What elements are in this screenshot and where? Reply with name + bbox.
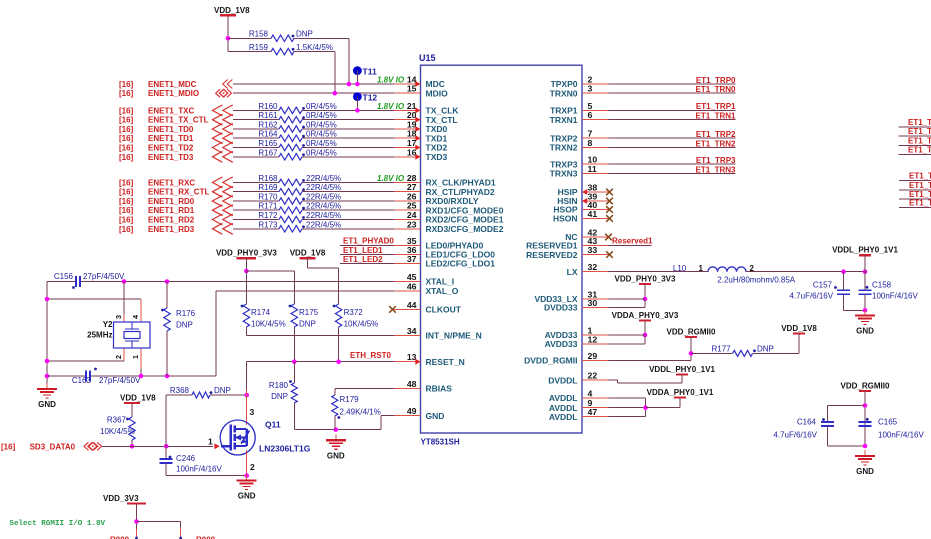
svg-text:R169: R169 [258, 183, 278, 192]
svg-text:0R/4/5%: 0R/4/5% [306, 148, 337, 157]
svg-text:0R/4/5%: 0R/4/5% [306, 130, 337, 139]
svg-text:22R/4/5%: 22R/4/5% [306, 193, 341, 202]
svg-text:ENET1_TX_CTL: ENET1_TX_CTL [148, 116, 209, 125]
svg-text:DNP: DNP [214, 386, 231, 395]
svg-text:100nF/4/16V: 100nF/4/16V [176, 465, 222, 474]
svg-text:1: 1 [208, 436, 213, 446]
svg-text:YT8531SH: YT8531SH [421, 438, 460, 447]
svg-text:DVDDL: DVDDL [548, 375, 577, 385]
svg-text:CLKOUT: CLKOUT [426, 305, 462, 315]
svg-text:VDD_3V3: VDD_3V3 [103, 494, 139, 503]
svg-text:C246: C246 [176, 454, 196, 463]
svg-text:[16]: [16] [119, 197, 134, 206]
svg-text:25MHz: 25MHz [87, 331, 112, 340]
svg-text:32: 32 [588, 262, 598, 272]
svg-text:ET1_T: ET1_T [908, 137, 931, 146]
svg-text:0R/4/5%: 0R/4/5% [306, 121, 337, 130]
svg-text:8: 8 [588, 138, 593, 148]
svg-text:ENET1_RD2: ENET1_RD2 [148, 216, 195, 225]
svg-text:ET1_TRP2: ET1_TRP2 [696, 130, 736, 139]
svg-text:TRXN3: TRXN3 [550, 169, 578, 179]
svg-text:0R/4/5%: 0R/4/5% [306, 102, 337, 111]
svg-text:GND: GND [327, 451, 345, 460]
svg-text:ENET1_RD1: ENET1_RD1 [148, 206, 195, 215]
svg-text:4: 4 [588, 389, 593, 399]
svg-text:4.7uF/6/16V: 4.7uF/6/16V [773, 431, 817, 440]
svg-text:ENET1_TD0: ENET1_TD0 [148, 125, 194, 134]
svg-text:R372: R372 [344, 308, 364, 317]
svg-text:R174: R174 [251, 308, 271, 317]
svg-text:47: 47 [588, 407, 598, 417]
svg-text:RXD3/CFG_MODE2: RXD3/CFG_MODE2 [426, 224, 504, 234]
svg-text:1.5K/4/5%: 1.5K/4/5% [296, 43, 333, 52]
svg-text:DNP: DNP [296, 30, 313, 39]
svg-text:R177: R177 [711, 344, 731, 353]
svg-text:LX: LX [567, 267, 578, 277]
svg-text:R000: R000 [110, 536, 130, 539]
svg-text:1.8V IO: 1.8V IO [377, 174, 405, 183]
svg-text:C158: C158 [872, 281, 892, 290]
svg-text:R000: R000 [196, 536, 216, 539]
svg-text:VDD_PHY0_3V3: VDD_PHY0_3V3 [615, 275, 676, 284]
svg-text:ENET1_TXC: ENET1_TXC [148, 106, 194, 115]
svg-text:ENET1_MDC: ENET1_MDC [148, 80, 197, 89]
svg-text:R158: R158 [249, 30, 269, 39]
svg-text:2: 2 [250, 462, 255, 472]
svg-text:27pF/4/50V: 27pF/4/50V [83, 272, 125, 281]
svg-text:[16]: [16] [119, 225, 134, 234]
svg-text:[16]: [16] [119, 178, 134, 187]
svg-text:46: 46 [407, 281, 417, 291]
svg-text:RESET_N: RESET_N [426, 357, 465, 367]
svg-text:22R/4/5%: 22R/4/5% [306, 211, 341, 220]
svg-text:ETH_RST0: ETH_RST0 [350, 351, 391, 360]
svg-text:49: 49 [407, 406, 417, 416]
svg-text:15: 15 [407, 84, 417, 94]
svg-text:R175: R175 [299, 308, 319, 317]
svg-text:ENET1_TD3: ENET1_TD3 [148, 153, 194, 162]
svg-text:Select RGMII I/O 1.8V: Select RGMII I/O 1.8V [9, 520, 105, 528]
svg-text:R179: R179 [340, 395, 360, 404]
svg-text:ET1_T: ET1_T [909, 181, 931, 190]
svg-text:29: 29 [588, 351, 598, 361]
svg-text:3: 3 [588, 84, 593, 94]
svg-text:VDDA_PHY0_1V1: VDDA_PHY0_1V1 [647, 388, 714, 397]
svg-text:U15: U15 [419, 53, 436, 63]
svg-text:ENET1_RD0: ENET1_RD0 [148, 197, 195, 206]
svg-text:[16]: [16] [119, 116, 134, 125]
svg-text:33: 33 [588, 245, 598, 255]
svg-text:ET1_TRP3: ET1_TRP3 [696, 156, 736, 165]
svg-text:VDD_1V8: VDD_1V8 [120, 394, 156, 403]
svg-text:10K/4/5%: 10K/4/5% [100, 427, 135, 436]
svg-text:DNP: DNP [271, 392, 288, 401]
svg-text:VDDL_PHY0_1V1: VDDL_PHY0_1V1 [832, 246, 898, 255]
svg-text:C156: C156 [54, 272, 74, 281]
svg-text:GND: GND [426, 411, 445, 421]
svg-text:[16]: [16] [119, 80, 134, 89]
svg-text:1: 1 [131, 355, 140, 359]
svg-text:ENET1_TD2: ENET1_TD2 [148, 144, 194, 153]
svg-text:ET1_T: ET1_T [909, 172, 931, 181]
svg-text:ET1_PHYAD0: ET1_PHYAD0 [343, 237, 394, 246]
svg-text:AVDD33: AVDD33 [545, 339, 578, 349]
svg-text:C163: C163 [72, 376, 92, 385]
svg-text:2.2uH/80mohm/0.85A: 2.2uH/80mohm/0.85A [717, 275, 795, 284]
svg-text:Q11: Q11 [265, 420, 281, 430]
svg-text:6: 6 [588, 110, 593, 120]
svg-text:GND: GND [856, 467, 874, 476]
svg-text:[16]: [16] [119, 206, 134, 215]
svg-text:R165: R165 [258, 139, 278, 148]
svg-text:10K/4/5%: 10K/4/5% [251, 320, 286, 329]
svg-text:INT_N/PME_N: INT_N/PME_N [426, 331, 482, 341]
svg-text:ET1_TRN2: ET1_TRN2 [695, 139, 736, 148]
svg-text:VDD_1V8: VDD_1V8 [290, 249, 326, 258]
svg-text:TRXN0: TRXN0 [550, 88, 578, 98]
svg-text:VDDL_PHY0_1V1: VDDL_PHY0_1V1 [649, 365, 715, 374]
svg-text:VDD_1V8: VDD_1V8 [214, 6, 250, 15]
svg-text:48: 48 [407, 379, 417, 389]
svg-text:27pF/4/50V: 27pF/4/50V [99, 376, 141, 385]
svg-text:ET1_LED2: ET1_LED2 [343, 255, 383, 264]
svg-text:23: 23 [407, 219, 417, 229]
svg-text:0R/4/5%: 0R/4/5% [306, 111, 337, 120]
svg-text:R161: R161 [258, 111, 278, 120]
svg-text:30: 30 [588, 298, 598, 308]
svg-text:3: 3 [114, 315, 123, 319]
svg-text:ET1_T: ET1_T [908, 146, 931, 155]
svg-text:[16]: [16] [119, 216, 134, 225]
svg-text:C165: C165 [878, 418, 898, 427]
svg-text:[16]: [16] [119, 188, 134, 197]
svg-text:1: 1 [699, 264, 704, 273]
svg-text:R171: R171 [258, 202, 278, 211]
svg-text:ENET1_MDIO: ENET1_MDIO [148, 89, 199, 98]
svg-text:DNP: DNP [299, 320, 316, 329]
svg-text:R159: R159 [249, 43, 269, 52]
svg-text:41: 41 [588, 209, 598, 219]
svg-text:ET1_TRP0: ET1_TRP0 [696, 76, 736, 85]
svg-text:22: 22 [588, 371, 598, 381]
svg-text:R368: R368 [170, 386, 190, 395]
svg-text:37: 37 [407, 254, 417, 264]
svg-text:GND: GND [38, 400, 56, 409]
svg-text:R170: R170 [258, 193, 278, 202]
svg-text:XTAL_O: XTAL_O [426, 286, 459, 296]
svg-text:0R/4/5%: 0R/4/5% [306, 139, 337, 148]
svg-text:[16]: [16] [119, 89, 134, 98]
svg-text:4.7uF/6/16V: 4.7uF/6/16V [790, 292, 834, 301]
svg-text:R160: R160 [258, 102, 278, 111]
svg-text:DNP: DNP [176, 321, 193, 330]
svg-text:100nF/4/16V: 100nF/4/16V [878, 431, 924, 440]
svg-text:VDD_RGMII0: VDD_RGMII0 [841, 382, 890, 391]
svg-text:SD3_DATA0: SD3_DATA0 [30, 442, 76, 451]
svg-text:[16]: [16] [119, 153, 134, 162]
svg-text:LED2/CFG_LDO1: LED2/CFG_LDO1 [426, 259, 496, 269]
svg-text:ET1_TRN0: ET1_TRN0 [695, 85, 736, 94]
svg-text:34: 34 [407, 326, 417, 336]
svg-text:ENET1_RX_CTL: ENET1_RX_CTL [148, 188, 209, 197]
svg-text:11: 11 [588, 164, 597, 174]
svg-text:C157: C157 [813, 281, 833, 290]
svg-text:1.8V IO: 1.8V IO [377, 76, 405, 85]
svg-text:TRXN1: TRXN1 [550, 115, 578, 125]
svg-text:R167: R167 [258, 148, 278, 157]
svg-text:22R/4/5%: 22R/4/5% [306, 183, 341, 192]
svg-text:ET1_T: ET1_T [908, 127, 931, 136]
svg-text:12: 12 [588, 335, 598, 345]
svg-text:R180: R180 [269, 381, 289, 390]
svg-text:ENET1_RD3: ENET1_RD3 [148, 225, 195, 234]
svg-text:VDD_1V8: VDD_1V8 [781, 324, 817, 333]
svg-text:22R/4/5%: 22R/4/5% [306, 174, 341, 183]
svg-text:VDDA_PHY0_3V3: VDDA_PHY0_3V3 [612, 311, 679, 320]
svg-text:[16]: [16] [119, 125, 134, 134]
svg-text:DVDD33: DVDD33 [544, 303, 578, 313]
svg-text:DVDD_RGMII: DVDD_RGMII [524, 356, 577, 366]
svg-text:ENET1_TD1: ENET1_TD1 [148, 134, 194, 143]
svg-text:ENET1_RXC: ENET1_RXC [148, 178, 195, 187]
svg-text:VDD_PHY0_3V3: VDD_PHY0_3V3 [216, 249, 277, 258]
svg-text:T11: T11 [363, 67, 377, 77]
svg-text:16: 16 [407, 147, 417, 157]
svg-text:ET1_TRN1: ET1_TRN1 [695, 112, 736, 121]
svg-text:22R/4/5%: 22R/4/5% [306, 202, 341, 211]
svg-text:ET1_T: ET1_T [909, 199, 931, 208]
svg-text:ET1_T: ET1_T [908, 118, 931, 127]
svg-text:R173: R173 [258, 220, 278, 229]
svg-text:TRXN2: TRXN2 [550, 143, 578, 153]
svg-text:13: 13 [407, 352, 417, 362]
svg-text:[16]: [16] [1, 442, 16, 451]
svg-text:Y2: Y2 [103, 320, 113, 329]
svg-text:[16]: [16] [119, 106, 134, 115]
svg-text:VDD_RGMII0: VDD_RGMII0 [667, 328, 716, 337]
svg-text:10K/4/5%: 10K/4/5% [344, 320, 379, 329]
svg-text:2.49K/4/1%: 2.49K/4/1% [340, 408, 381, 417]
svg-text:3: 3 [250, 407, 255, 417]
svg-text:MDIO: MDIO [426, 88, 449, 98]
svg-text:DNP: DNP [757, 344, 774, 353]
svg-text:[16]: [16] [119, 134, 134, 143]
svg-text:GND: GND [856, 327, 874, 336]
svg-text:44: 44 [407, 300, 417, 310]
svg-text:R367: R367 [107, 416, 127, 425]
svg-text:GND: GND [238, 492, 256, 501]
svg-text:LN2306LT1G: LN2306LT1G [259, 444, 311, 454]
svg-text:R164: R164 [258, 130, 278, 139]
svg-text:RESERVED2: RESERVED2 [526, 250, 578, 260]
svg-text:100nF/4/16V: 100nF/4/16V [872, 292, 918, 301]
svg-text:R168: R168 [258, 174, 278, 183]
svg-text:AVDDL: AVDDL [549, 412, 578, 422]
svg-text:HSON: HSON [553, 214, 578, 224]
svg-text:T12: T12 [363, 93, 378, 103]
svg-text:ET1_TRP1: ET1_TRP1 [696, 102, 736, 111]
svg-text:2: 2 [114, 355, 123, 359]
svg-text:R172: R172 [258, 211, 278, 220]
svg-text:Reserved1: Reserved1 [612, 237, 653, 246]
svg-text:22R/4/5%: 22R/4/5% [306, 220, 341, 229]
svg-text:L10: L10 [673, 264, 687, 273]
svg-text:R176: R176 [176, 309, 196, 318]
svg-text:ET1_TRN3: ET1_TRN3 [695, 165, 736, 174]
svg-text:R162: R162 [258, 121, 278, 130]
svg-text:C164: C164 [797, 418, 817, 427]
svg-text:TXD3: TXD3 [426, 152, 448, 162]
svg-text:ET1_LED1: ET1_LED1 [343, 246, 383, 255]
svg-text:AVDDL: AVDDL [549, 393, 578, 403]
svg-text:[16]: [16] [119, 144, 134, 153]
svg-text:RBIAS: RBIAS [426, 384, 453, 394]
svg-text:1.8V IO: 1.8V IO [377, 102, 405, 111]
